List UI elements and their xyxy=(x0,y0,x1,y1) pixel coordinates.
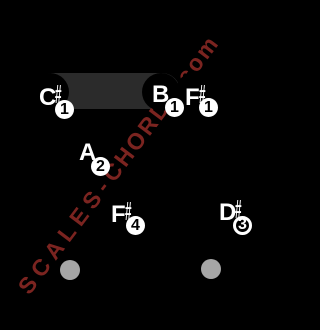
note disc F# top xyxy=(176,72,214,110)
open string dot left xyxy=(60,260,80,280)
note label D# xyxy=(219,198,250,225)
note label F# bottom xyxy=(111,200,139,227)
note label C# xyxy=(39,83,70,110)
badge 4 under F# bottom xyxy=(126,216,145,235)
watermark SCALES-CHORDS.com xyxy=(23,38,214,291)
note disc C# xyxy=(31,73,69,111)
note label F# top xyxy=(185,83,213,110)
badge 1 under F# top xyxy=(199,98,218,117)
badge 1 under C# xyxy=(55,100,74,119)
badge 1 under B xyxy=(165,98,184,117)
badge 2 under A xyxy=(91,157,110,176)
note label B xyxy=(152,83,169,107)
open string dot right xyxy=(201,259,221,279)
note disc B xyxy=(142,73,180,111)
note label A xyxy=(79,141,96,165)
badge 3 under D# (ring style) xyxy=(233,216,252,235)
barre bar fret1 xyxy=(34,73,180,109)
